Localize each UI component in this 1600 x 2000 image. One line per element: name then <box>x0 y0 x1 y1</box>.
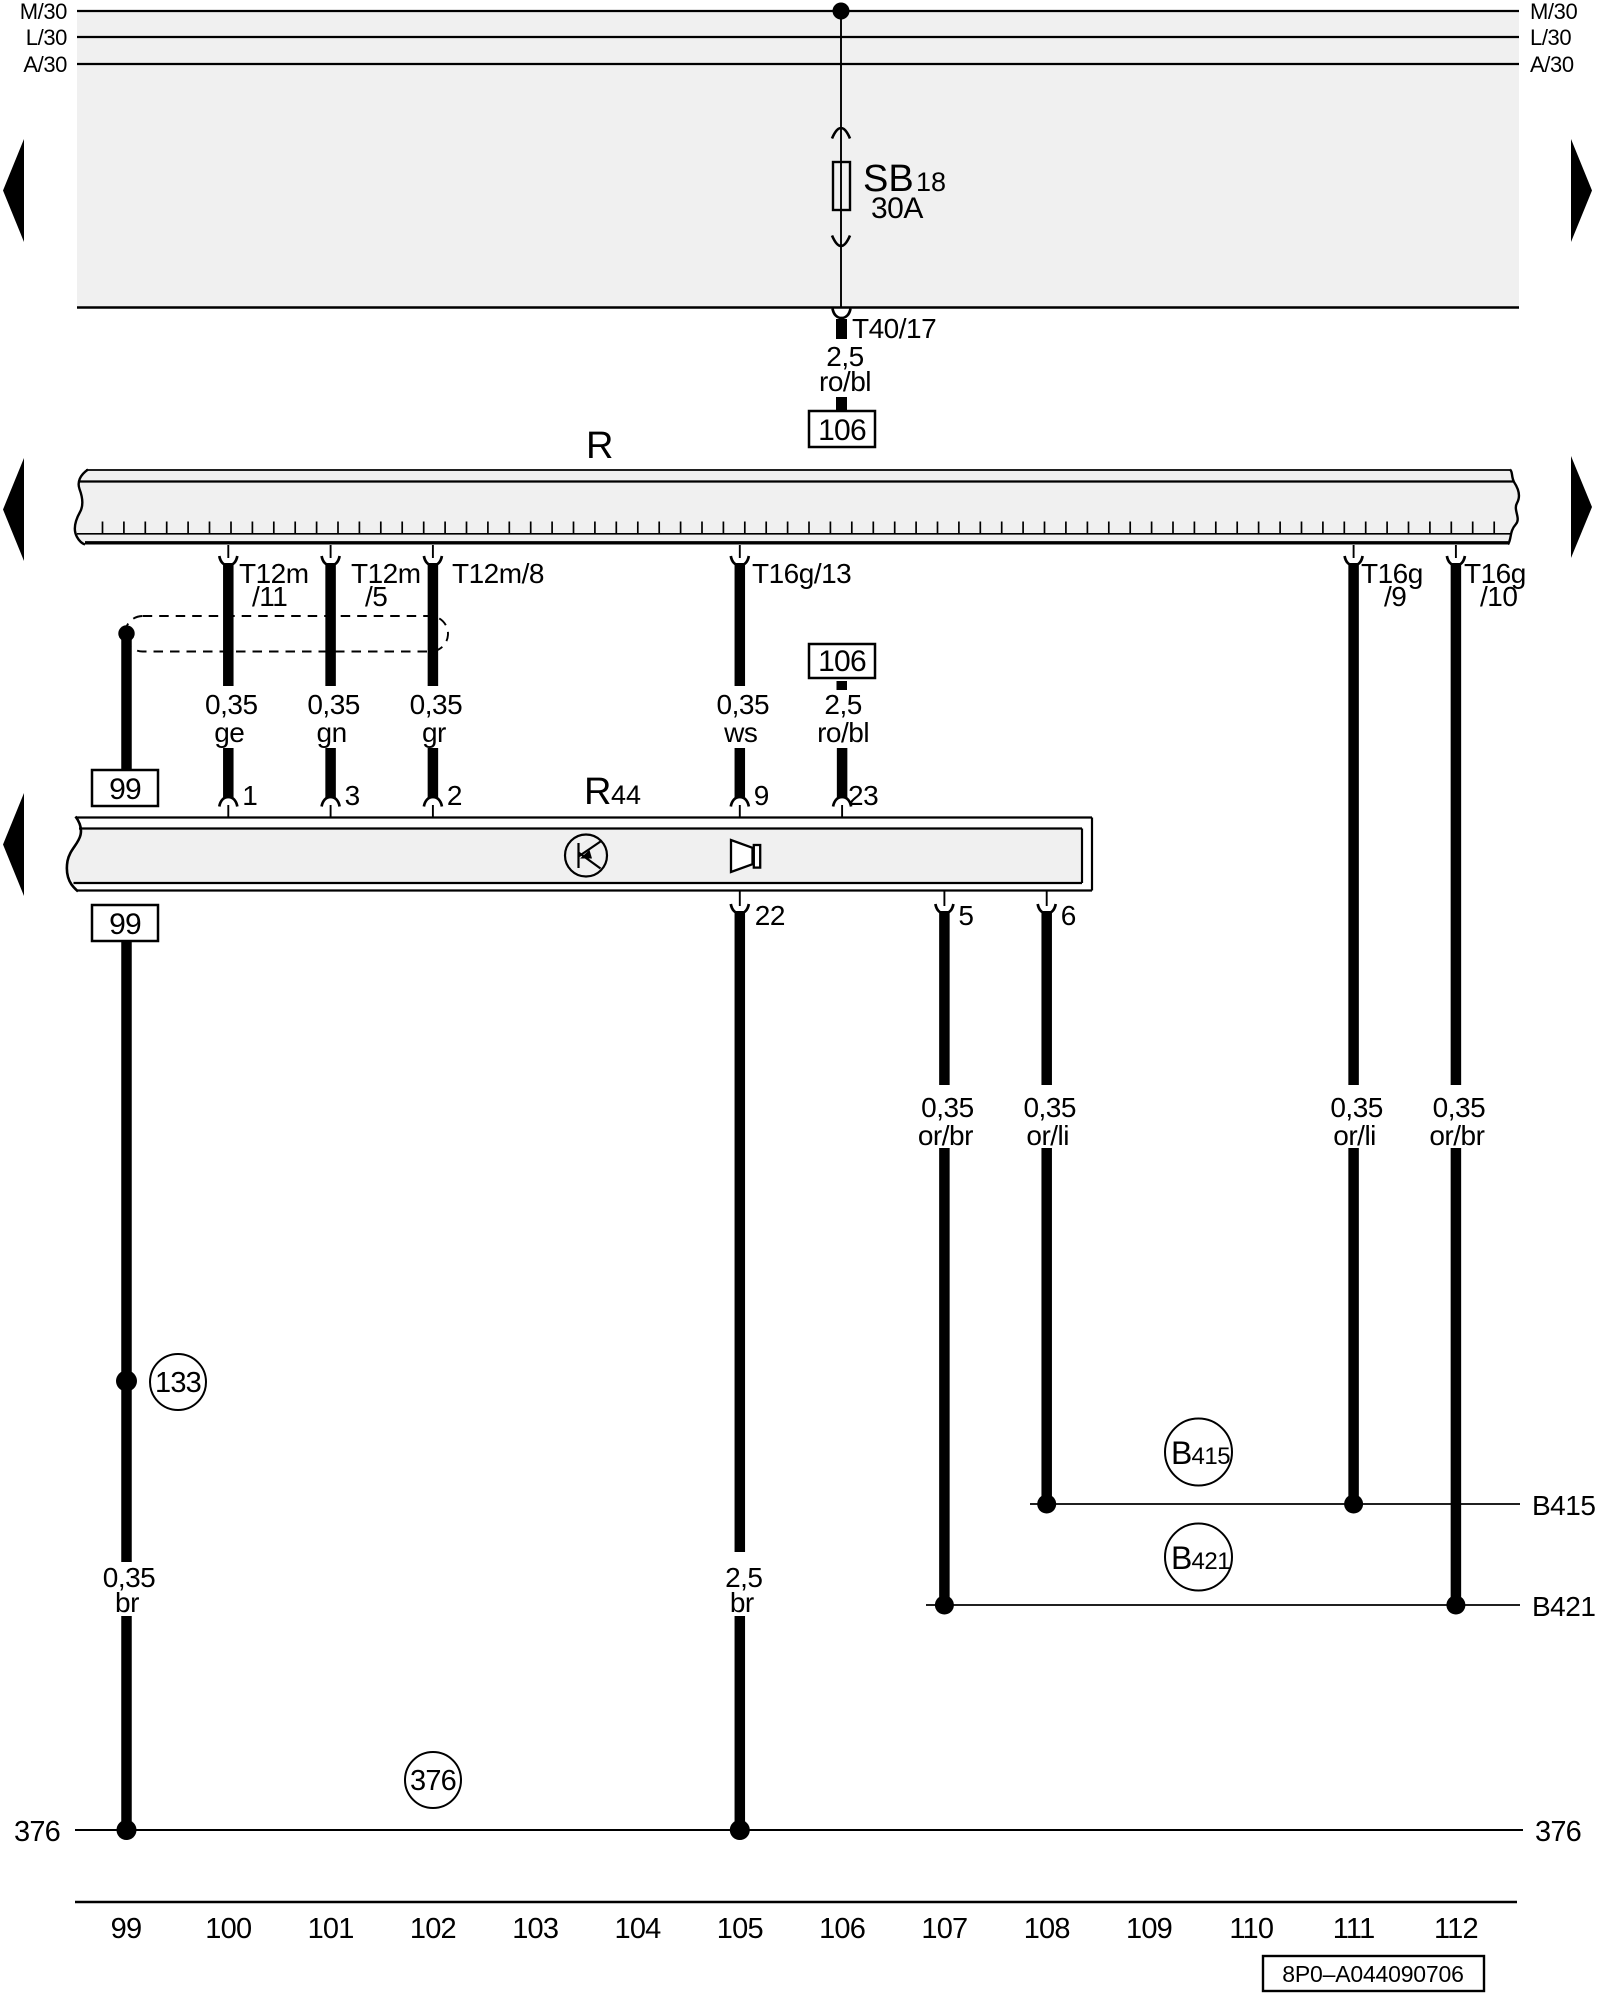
track number 112 <box>1434 1913 1478 1945</box>
svg-text:23: 23 <box>848 780 878 811</box>
svg-text:T40/17: T40/17 <box>852 313 936 344</box>
label M/30 left <box>20 0 67 24</box>
svg-text:108: 108 <box>1024 1913 1070 1945</box>
node line B415 <box>1030 1490 1595 1521</box>
track number 107 <box>921 1913 967 1945</box>
svg-text:6: 6 <box>1061 900 1076 931</box>
component R (radio) bar <box>75 470 1519 545</box>
R pin T16g/13 wire <box>731 545 851 798</box>
label 376 right <box>1535 1816 1581 1848</box>
wire 2,5 ro/bl to pin 23 <box>837 748 848 798</box>
svg-text:gn: gn <box>317 717 347 748</box>
svg-text:or/li: or/li <box>1026 1120 1069 1151</box>
label L/30 left <box>26 25 67 50</box>
track reference box 99 (upper) <box>92 770 158 806</box>
svg-text:R: R <box>586 425 613 467</box>
svg-text:0,35: 0,35 <box>307 689 360 720</box>
designation circle B415 <box>1165 1419 1232 1486</box>
R44 pin 9 connector <box>731 780 769 818</box>
svg-text:0,35: 0,35 <box>717 689 770 720</box>
track number 111 <box>1333 1913 1375 1945</box>
loudspeaker icon in R44 <box>731 840 760 872</box>
R44 pin 1 connector <box>219 780 257 818</box>
svg-text:B: B <box>1171 1540 1192 1576</box>
power supply band 30 <box>77 11 1519 308</box>
wire label 0,35 gn <box>307 689 360 748</box>
track number 101 <box>308 1913 354 1945</box>
label L/30 right <box>1530 25 1571 50</box>
svg-text:111: 111 <box>1333 1913 1375 1945</box>
svg-text:9: 9 <box>754 780 769 811</box>
track number 110 <box>1229 1913 1273 1945</box>
continuation arrow right (band) <box>1571 139 1592 242</box>
svg-text:br: br <box>730 1587 754 1618</box>
designation circle B421 <box>1165 1524 1232 1591</box>
label M/30 right <box>1530 0 1577 24</box>
svg-text:44: 44 <box>611 780 641 810</box>
svg-text:B421: B421 <box>1532 1591 1595 1622</box>
wire label 0,35 or/br <box>918 1092 974 1151</box>
svg-text:104: 104 <box>615 1913 662 1945</box>
diagram part number box <box>1263 1956 1484 1991</box>
R pin T12m/11 wire <box>219 545 308 798</box>
svg-text:421: 421 <box>1192 1548 1231 1575</box>
svg-text:or/br: or/br <box>918 1120 973 1151</box>
svg-text:2: 2 <box>447 780 462 811</box>
node line B421 <box>926 1591 1595 1622</box>
svg-text:ws: ws <box>723 717 757 748</box>
wire rail M/30 <box>77 10 1519 12</box>
ground designation circle 133 <box>150 1354 206 1410</box>
semiconductor icon in R44 <box>565 835 607 877</box>
svg-text:105: 105 <box>717 1913 763 1945</box>
svg-text:B415: B415 <box>1532 1490 1595 1521</box>
designation circle 376 <box>405 1752 461 1808</box>
svg-text:or/br: or/br <box>1429 1120 1484 1151</box>
svg-text:8P0–A044090706: 8P0–A044090706 <box>1282 1961 1463 1987</box>
wire from M/30 to fuse <box>840 11 842 307</box>
svg-text:or/li: or/li <box>1333 1120 1376 1151</box>
svg-text:ro/bl: ro/bl <box>819 366 871 397</box>
svg-text:L/30: L/30 <box>1530 25 1571 50</box>
R44 pin 3 connector <box>322 780 360 818</box>
shield drain wire (track 99) <box>121 634 132 771</box>
junction node B421 left <box>935 1596 954 1615</box>
R44 pin 22 wire 2,5 br <box>731 891 785 1830</box>
junction node 133 <box>116 1371 137 1392</box>
svg-text:376: 376 <box>14 1816 60 1848</box>
svg-text:107: 107 <box>921 1913 967 1945</box>
wire rail A/30 <box>77 63 1519 65</box>
svg-text:gr: gr <box>422 717 446 748</box>
svg-text:ro/bl: ro/bl <box>817 717 869 748</box>
svg-text:99: 99 <box>111 1913 142 1945</box>
R44 pin 6 wire 0,35 or/li <box>1038 891 1076 1504</box>
svg-text:415: 415 <box>1192 1443 1231 1470</box>
ground wire 0,35 br (track 99) <box>121 941 132 1830</box>
junction node B421 right <box>1446 1596 1465 1615</box>
wire label 0,35 or/br right <box>1429 1092 1485 1151</box>
R44 pin 23 connector <box>833 780 878 818</box>
track number 105 <box>717 1913 763 1945</box>
R pin T12m/8 wire <box>424 545 544 798</box>
svg-text:2,5: 2,5 <box>824 689 861 720</box>
svg-text:102: 102 <box>410 1913 456 1945</box>
track number 102 <box>410 1913 456 1945</box>
junction node B415 left <box>1037 1495 1056 1514</box>
svg-text:99: 99 <box>109 773 141 806</box>
svg-text:0,35: 0,35 <box>1330 1092 1383 1123</box>
svg-text:0,35: 0,35 <box>1023 1092 1076 1123</box>
svg-text:A/30: A/30 <box>23 52 67 77</box>
wire label 0,35 or/li <box>1023 1092 1076 1151</box>
R pin T16g/10 wire <box>1447 545 1526 1605</box>
track reference box 106 (top) <box>809 411 875 447</box>
R44 pin 2 connector <box>424 780 462 818</box>
svg-text:/10: /10 <box>1480 581 1517 612</box>
svg-text:R: R <box>584 771 611 813</box>
junction node on M/30 <box>833 3 850 20</box>
wire label 0,35 br <box>103 1562 156 1618</box>
svg-text:112: 112 <box>1434 1913 1478 1945</box>
svg-text:3: 3 <box>345 780 360 811</box>
label SB18 30A <box>863 158 946 225</box>
track number 108 <box>1024 1913 1070 1945</box>
svg-text:0,35: 0,35 <box>921 1092 974 1123</box>
svg-text:T16g/13: T16g/13 <box>752 558 851 589</box>
svg-text:/11: /11 <box>252 581 287 612</box>
band bottom edge <box>77 306 1519 308</box>
svg-text:1: 1 <box>242 780 257 811</box>
track number 99 <box>111 1913 142 1945</box>
track number 100 <box>205 1913 251 1945</box>
svg-text:103: 103 <box>512 1913 558 1945</box>
label R44 <box>584 771 641 813</box>
continuation arrow left (band) <box>3 139 24 242</box>
track number 109 <box>1126 1913 1172 1945</box>
track scale line <box>75 1901 1517 1903</box>
R pin T16g/9 wire <box>1345 545 1423 1504</box>
junction node 376 track 105 <box>730 1820 750 1840</box>
label A/30 left <box>23 52 67 77</box>
wire label 2,5 ro/bl (second) <box>817 689 869 748</box>
wire stub into box 106 <box>836 397 847 413</box>
svg-text:0,35: 0,35 <box>1433 1092 1486 1123</box>
svg-text:30A: 30A <box>871 192 923 225</box>
svg-text:0,35: 0,35 <box>410 689 463 720</box>
svg-text:br: br <box>115 1587 139 1618</box>
component R44 (amplifier) bar <box>67 817 1092 892</box>
label R <box>586 425 613 467</box>
svg-text:22: 22 <box>755 900 785 931</box>
wire stub below box 106 <box>837 681 848 690</box>
R44 pin 5 wire 0,35 or/br <box>935 891 973 1605</box>
ground rail 376 <box>75 1829 1523 1831</box>
svg-text:106: 106 <box>818 645 866 678</box>
label A/30 right <box>1530 52 1574 77</box>
svg-text:B: B <box>1171 1435 1192 1471</box>
connector T40/17 <box>833 309 937 345</box>
shield (screened cable) capsule <box>125 616 448 652</box>
continuation arrow left (R44) <box>3 793 24 896</box>
track reference box 99 (lower) <box>92 905 158 941</box>
svg-text:376: 376 <box>410 1765 456 1797</box>
track number 103 <box>512 1913 558 1945</box>
wire label 2,5 ro/bl <box>819 341 871 397</box>
wire label 0,35 ws <box>717 689 770 748</box>
svg-text:106: 106 <box>819 1913 865 1945</box>
wire label 2,5 br <box>725 1562 762 1618</box>
svg-text:A/30: A/30 <box>1530 52 1574 77</box>
svg-text:M/30: M/30 <box>1530 0 1577 24</box>
svg-text:100: 100 <box>205 1913 251 1945</box>
continuation arrow left (R bar) <box>3 458 24 561</box>
svg-text:ge: ge <box>214 717 244 748</box>
svg-text:M/30: M/30 <box>20 0 67 24</box>
track reference box 106 (middle) <box>809 644 875 678</box>
shield connection node <box>118 625 134 641</box>
svg-text:376: 376 <box>1535 1816 1581 1848</box>
wire label 0,35 gr <box>410 689 463 748</box>
R pin T12m/5 wire <box>322 545 421 798</box>
svg-text:110: 110 <box>1229 1913 1273 1945</box>
svg-text:99: 99 <box>109 908 141 941</box>
label 376 left <box>14 1816 60 1848</box>
junction node B415 right <box>1344 1495 1363 1514</box>
wire rail L/30 <box>77 36 1519 38</box>
svg-text:133: 133 <box>155 1367 201 1399</box>
svg-text:5: 5 <box>958 900 973 931</box>
svg-text:106: 106 <box>818 414 866 447</box>
fuse SB18 <box>832 128 850 246</box>
svg-text:/5: /5 <box>365 581 387 612</box>
junction node 376 track 99 <box>117 1820 137 1840</box>
track number 104 <box>615 1913 662 1945</box>
continuation arrow right (R bar) <box>1571 456 1592 558</box>
svg-text:T12m/8: T12m/8 <box>452 558 544 589</box>
track number 106 <box>819 1913 865 1945</box>
svg-text:109: 109 <box>1126 1913 1172 1945</box>
svg-text:101: 101 <box>308 1913 354 1945</box>
svg-text:/9: /9 <box>1384 581 1406 612</box>
svg-text:0,35: 0,35 <box>205 689 258 720</box>
wire label 0,35 ge <box>205 689 258 748</box>
wire label 0,35 or/li right <box>1330 1092 1383 1151</box>
svg-text:L/30: L/30 <box>26 25 67 50</box>
